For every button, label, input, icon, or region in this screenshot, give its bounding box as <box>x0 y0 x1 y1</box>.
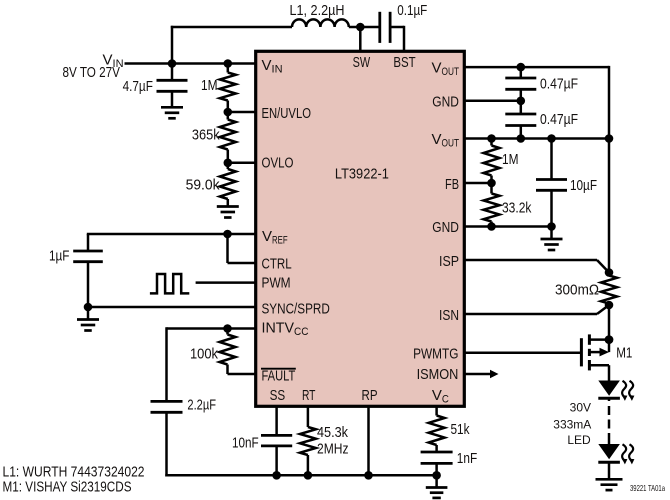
wire: right vertical VOUT to rail <box>608 66 611 139</box>
wire: PWMTG to gate <box>463 351 581 354</box>
wire: dashed LED string <box>608 398 611 401</box>
resistor 59.0k <box>227 163 230 169</box>
wire: vertical rail to sense resistor <box>608 139 611 273</box>
capacitor 0.47µF (second) <box>520 101 523 114</box>
svg-text:365k: 365k <box>192 127 220 144</box>
wire: CTRL jog <box>226 234 229 263</box>
capacitor 2.2µF (INTVCC) <box>165 327 168 401</box>
node: FB junction <box>487 179 496 188</box>
node: 10µF/GND junction <box>547 222 556 231</box>
svg-text:GND: GND <box>432 219 459 236</box>
svg-text:51k: 51k <box>451 421 470 438</box>
capacitor 10µF <box>550 139 553 180</box>
node: VIN/4.7µF junction <box>168 59 177 68</box>
svg-text:PWM: PWM <box>262 274 291 291</box>
node: SW junction dot <box>356 23 365 32</box>
svg-text:300mΩ: 300mΩ <box>555 282 599 299</box>
wire: INTVCC line <box>167 327 256 330</box>
ground at bottom rail <box>435 475 438 487</box>
svg-text:ISMON: ISMON <box>417 366 459 383</box>
svg-text:FB: FB <box>445 176 459 193</box>
svg-text:30V: 30V <box>570 401 591 415</box>
node: 33.2k/GND junction <box>487 222 496 231</box>
transistor M1 (PMOS) <box>580 338 583 366</box>
wire: ISMON output arrow <box>463 373 490 376</box>
capacitor 0.47µF (top) <box>520 67 523 78</box>
resistor 365k <box>227 112 230 120</box>
svg-text:10µF: 10µF <box>570 177 597 194</box>
svg-text:1µF: 1µF <box>49 248 70 265</box>
capacitor 4.7µF <box>171 64 174 81</box>
svg-text:1M: 1M <box>201 77 218 94</box>
wire: FAULT pin <box>228 373 256 376</box>
wire: top horizontal to inductor <box>171 26 292 29</box>
svg-text:EN/UVLO: EN/UVLO <box>262 105 312 122</box>
wire: GND pin top <box>463 100 521 103</box>
svg-text:SW: SW <box>353 54 371 71</box>
wire: SYNC/SPRD line <box>88 306 255 309</box>
wire: VIN rail up to top loop <box>171 26 174 64</box>
svg-text:10nF: 10nF <box>232 435 259 452</box>
node: ISN/300mΩ junction <box>605 301 614 310</box>
node: VIN/1M junction <box>224 59 233 68</box>
svg-text:SYNC/SPRD: SYNC/SPRD <box>262 301 330 318</box>
wire: RP pin down <box>367 407 370 475</box>
svg-text:4.7µF: 4.7µF <box>123 78 153 95</box>
op-amp U1: LT3922-1 IC body <box>256 51 465 406</box>
resistor 33.2k (FB bottom) <box>490 183 493 194</box>
svg-text:BST: BST <box>393 54 415 71</box>
svg-text:1M: 1M <box>502 151 519 168</box>
resistor 51k (VC) <box>435 407 438 416</box>
wire: cap to BST pin <box>390 26 404 29</box>
ground under 1µF <box>87 307 90 320</box>
resistor 300mΩ (sense) <box>608 273 611 276</box>
svg-text:59.0k: 59.0k <box>186 177 220 194</box>
node: INTVCC/100k junction <box>223 324 232 333</box>
capacitor 0.1µF (BST) vertical plates <box>378 12 381 43</box>
svg-text:333mA: 333mA <box>553 418 591 432</box>
svg-text:45.3k: 45.3k <box>317 424 348 441</box>
svg-text:0.1µF: 0.1µF <box>397 2 427 19</box>
svg-text:FAULT: FAULT <box>262 368 296 385</box>
svg-text:33.2k: 33.2k <box>502 200 532 217</box>
svg-text:M1: VISHAY Si2319CDS: M1: VISHAY Si2319CDS <box>3 479 132 496</box>
svg-text:2.2µF: 2.2µF <box>187 397 216 414</box>
wire: ISN line <box>597 305 609 314</box>
ground at GND line <box>550 227 553 240</box>
svg-text:0.47µF: 0.47µF <box>540 111 578 128</box>
svg-text:LT3922-1: LT3922-1 <box>335 166 389 183</box>
capacitor 1µF (VREF) <box>87 234 90 251</box>
capacitor 1nF (VC) <box>421 451 453 454</box>
inductor L1 2.2uH <box>292 19 349 27</box>
LED D1 <box>598 381 620 396</box>
node: GND/cap junction <box>517 97 526 106</box>
wire: VOUT top <box>463 66 609 69</box>
svg-text:M1: M1 <box>616 345 632 362</box>
wire: VREF line <box>87 233 255 236</box>
node: RT rail junction <box>304 471 313 480</box>
node: 0.47µF top junction <box>517 63 526 72</box>
svg-text:ISP: ISP <box>439 253 459 270</box>
resistor 1M (FB top) <box>490 139 493 146</box>
svg-text:8V TO 27V: 8V TO 27V <box>63 64 121 81</box>
svg-text:39221 TA01a: 39221 TA01a <box>630 483 665 493</box>
svg-text:2MHz: 2MHz <box>317 441 349 458</box>
node: rail junction dots <box>517 134 526 143</box>
svg-text:RP: RP <box>362 387 378 404</box>
wire: VIN rail <box>125 62 256 65</box>
LED D2 light rays <box>622 444 633 461</box>
capacitor 10nF (SS) <box>275 407 278 435</box>
wire: bottom ground rail <box>165 474 436 477</box>
node: SS rail junction <box>272 471 281 480</box>
wire: EN/UVLO pin <box>228 111 255 114</box>
node: OVLO junction <box>224 159 233 168</box>
wire: FB pin <box>463 182 492 185</box>
node: VREF/CTRL junction <box>223 230 232 239</box>
svg-text:1nF: 1nF <box>457 450 477 467</box>
svg-text:100k: 100k <box>190 346 218 363</box>
wire: GND pin (second) <box>463 225 552 228</box>
svg-text:0.47µF: 0.47µF <box>540 75 578 92</box>
svg-text:OVLO: OVLO <box>262 155 294 172</box>
wire: OVLO pin <box>228 162 255 165</box>
wire: ISP line <box>463 259 597 262</box>
node: RP rail junction <box>364 471 373 480</box>
ground under 4.7µF <box>161 106 183 109</box>
svg-text:CTRL: CTRL <box>262 255 292 272</box>
PWM waveform symbol <box>150 274 189 293</box>
wire: SW pin stub <box>359 27 362 52</box>
svg-text:GND: GND <box>432 93 459 110</box>
ground under LED string <box>608 462 611 479</box>
LED D1 light rays <box>622 381 633 398</box>
ground under 59.0k <box>217 205 239 208</box>
wire: VOUT rail (second) <box>463 137 609 140</box>
svg-text:ISN: ISN <box>439 307 459 324</box>
svg-text:RT: RT <box>302 387 316 404</box>
svg-text:PWMTG: PWMTG <box>413 346 458 363</box>
node: VC rail junction <box>432 471 441 480</box>
LED D2 <box>598 444 620 459</box>
node: EN/UVLO junction <box>224 108 233 117</box>
svg-text:LED: LED <box>567 433 591 447</box>
node: SYNC/1µF junction <box>84 303 93 312</box>
resistor 100k <box>226 329 229 335</box>
wire: inductor to SW node and cap <box>349 26 380 29</box>
resistor 1M (EN/UVLO divider top) <box>227 64 230 73</box>
node: ISP/300mΩ junction <box>605 268 614 277</box>
resistor 45.3k (RT) <box>307 407 310 427</box>
wire: PWM pin <box>196 281 255 284</box>
svg-text:L1, 2.2µH: L1, 2.2µH <box>290 2 345 19</box>
svg-text:SS: SS <box>270 387 286 404</box>
